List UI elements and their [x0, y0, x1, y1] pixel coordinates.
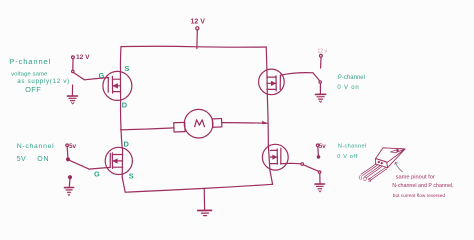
svg-text:D: D: [363, 177, 367, 183]
svg-text:but current flow reversed: but current flow reversed: [393, 193, 446, 199]
wire left side lower (S of Q3 to bottom rail): [122, 177, 125, 192]
svg-text:G: G: [359, 176, 363, 182]
note P-channel 0 V on (right): [337, 75, 365, 91]
svg-text:OFF: OFF: [25, 85, 41, 94]
svg-text:G: G: [99, 71, 105, 80]
svg-text:G: G: [94, 170, 100, 179]
svg-text:ON: ON: [37, 156, 49, 163]
svg-text:5V: 5V: [17, 156, 26, 163]
wire bottom rail: [125, 184, 272, 192]
note N-channel 5V ON (left): [17, 143, 55, 163]
svg-text:S: S: [125, 64, 130, 73]
ground for SW3: [65, 176, 74, 196]
note same pinout for N-channel and P channel, but current flow reversed: [392, 174, 453, 199]
svg-text:D: D: [124, 140, 130, 149]
note N-channel 0 V off (right): [337, 143, 366, 160]
svg-text:D: D: [122, 101, 128, 110]
wire right side lower (S of Q4 to bottom rail): [270, 170, 273, 184]
svg-text:S: S: [129, 172, 134, 181]
svg-text:N-channel and P channel,: N-channel and P channel,: [392, 183, 453, 189]
svg-text:same pinout for: same pinout for: [396, 174, 435, 180]
transistor Q4 N-channel bottom-right: [262, 144, 300, 170]
switch SW2 top-right (gate of Q2 to ground): [313, 54, 322, 83]
svg-text:voltage same: voltage same: [11, 72, 48, 78]
TO-220 package sketch: [361, 148, 405, 181]
svg-text:0 V off: 0 V off: [337, 154, 358, 160]
wire left side upper (S of Q1): [119, 47, 122, 72]
svg-text:N-channel: N-channel: [338, 143, 367, 149]
wire left side middle (D of Q1 to D of Q3, motor tap): [121, 100, 123, 148]
svg-text:as supply(12 v): as supply(12 v): [17, 78, 70, 85]
transistor Q1 P-channel top-left: [84, 71, 132, 100]
wire motor left: [120, 128, 173, 130]
ground for SW1: [68, 85, 78, 104]
svg-text:5v: 5v: [319, 143, 326, 150]
ground bottom center: [198, 188, 212, 215]
wire top rail: [121, 45, 266, 48]
wire right side upper (S of Q2): [265, 47, 268, 70]
svg-text:N-channel: N-channel: [17, 143, 55, 150]
wire motor right: [222, 122, 267, 125]
switch SW1 top-left (12V to gate of Q1): [72, 56, 85, 80]
svg-text:5v: 5v: [69, 143, 77, 150]
svg-text:0 V on: 0 V on: [337, 85, 359, 91]
svg-text:12 v: 12 v: [318, 49, 328, 55]
svg-text:12 V: 12 V: [191, 18, 206, 25]
transistor Q2 P-channel top-right: [259, 69, 313, 98]
svg-text:P-channel: P-channel: [338, 75, 365, 81]
annotation arrow to package: [395, 162, 403, 172]
ground for SW2: [316, 84, 326, 103]
motor M: [174, 109, 222, 138]
svg-text:12 V: 12 V: [76, 54, 90, 61]
ground for SW4: [315, 173, 325, 192]
note P-channel voltage same as supply(12 V) OFF: [9, 57, 70, 94]
transistor Q3 N-channel bottom-left: [89, 147, 132, 177]
supply 12V top terminal: [196, 27, 199, 49]
svg-text:P-channel: P-channel: [9, 57, 51, 66]
switch SW3 bottom-left (5V to gate of Q3): [66, 144, 89, 169]
wire right side middle (D of Q2 to D of Q4, motor tap): [266, 98, 269, 144]
switch SW4 bottom-right (gate of Q4 to ground): [301, 144, 321, 173]
